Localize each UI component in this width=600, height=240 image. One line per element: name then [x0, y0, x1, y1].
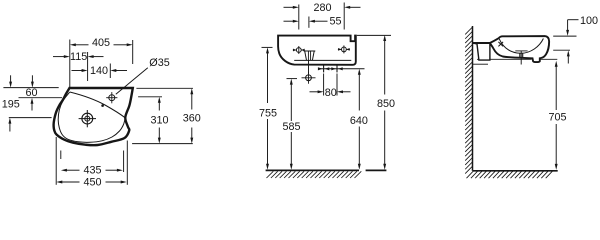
- svg-text:360: 360: [183, 112, 201, 124]
- svg-text:435: 435: [83, 165, 101, 177]
- svg-text:850: 850: [377, 98, 395, 110]
- svg-text:115: 115: [70, 51, 87, 63]
- svg-text:80: 80: [325, 87, 337, 99]
- svg-text:Ø35: Ø35: [149, 57, 169, 69]
- svg-text:195: 195: [2, 99, 20, 111]
- svg-text:140: 140: [90, 65, 108, 77]
- svg-text:450: 450: [83, 177, 101, 189]
- svg-text:755: 755: [259, 107, 277, 119]
- svg-text:705: 705: [548, 111, 566, 123]
- svg-text:585: 585: [282, 121, 300, 133]
- svg-text:280: 280: [313, 2, 331, 14]
- svg-text:405: 405: [92, 37, 110, 49]
- svg-text:310: 310: [150, 115, 168, 127]
- svg-text:55: 55: [329, 16, 341, 28]
- svg-text:640: 640: [350, 115, 368, 127]
- svg-text:100: 100: [580, 15, 598, 27]
- svg-text:60: 60: [25, 87, 37, 99]
